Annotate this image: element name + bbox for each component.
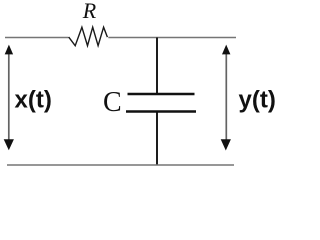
resistor R1 zigzag <box>69 27 108 46</box>
arrow x(t) top head <box>5 45 13 55</box>
capacitor C1 top plate <box>128 93 195 95</box>
wire top-right segment <box>108 37 236 39</box>
svg-text:C: C <box>103 87 122 118</box>
wire capacitor upper vertical <box>156 38 158 95</box>
svg-text:R: R <box>82 0 97 23</box>
arrow y(t) top head <box>222 45 230 55</box>
arrow x(t) bottom head <box>4 139 14 150</box>
wire bottom <box>7 164 234 166</box>
arrow y(t) bottom head <box>221 139 231 150</box>
wire capacitor lower vertical <box>156 112 158 166</box>
arrow x(t) shaft <box>8 50 10 144</box>
arrow y(t) shaft <box>225 51 227 145</box>
svg-text:y(t): y(t) <box>239 87 276 114</box>
wire top-left segment <box>5 37 69 39</box>
svg-text:x(t): x(t) <box>15 87 52 114</box>
capacitor C1 bottom plate <box>126 110 196 112</box>
